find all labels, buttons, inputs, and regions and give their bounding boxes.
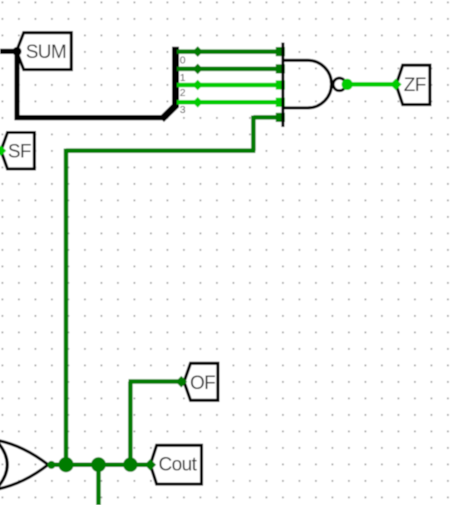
tunnel Cout — [150, 445, 201, 484]
junction dot at x=98.5 — [91, 457, 106, 472]
bus wire SUM 4-bit (thick black) — [0, 51, 164, 117]
tunnel OF — [184, 363, 218, 400]
wire horizontal to OF tunnel (low) — [129, 379, 182, 384]
end square wire bit0 at gate input — [276, 47, 285, 56]
node diamond on wire bit1 — [192, 64, 203, 75]
nand gate output bubble — [333, 78, 346, 91]
junction dot at x=130.4 — [123, 457, 137, 471]
wire nand output to ZF (high) — [347, 82, 396, 87]
nand gate U1 body — [283, 60, 332, 108]
wire bit3 (high, bright green) — [177, 100, 281, 105]
wire vertical to 5th input — [251, 116, 256, 151]
end square 5th input at gate input — [276, 113, 285, 122]
svg-text:0: 0 — [180, 55, 186, 67]
wire long vertical x=66 — [64, 149, 69, 465]
svg-text:1: 1 — [180, 72, 186, 84]
svg-text:SUM: SUM — [26, 42, 66, 63]
output node dot (high) — [342, 79, 353, 90]
or gate output node dot (low) — [47, 461, 55, 469]
wire vertical down from x=98.5 — [96, 465, 101, 505]
wire vertical up to OF (low) — [128, 382, 133, 465]
tunnel SUM — [17, 33, 72, 70]
splitter spine — [162, 47, 176, 120]
wire or-output to Cout (low) — [51, 463, 150, 468]
end square wire bit2 at gate input — [276, 80, 285, 89]
end diamond at OF tunnel — [176, 376, 188, 388]
end square wire bit3 at gate input — [276, 98, 285, 107]
or gate (bottom left, partially visible) — [0, 439, 48, 491]
tunnel SF — [1, 133, 35, 169]
svg-text:SF: SF — [8, 141, 31, 162]
junction dot at x=66 — [58, 457, 73, 472]
junction dot on bus at SUM tunnel point — [13, 47, 22, 56]
wire bit1 (low, dark green) — [177, 67, 281, 72]
node diamond on wire bit3 — [192, 97, 203, 108]
wire 5th input (low, dark green) horizontal into gate — [253, 115, 281, 120]
svg-text:OF: OF — [190, 373, 215, 394]
end diamond at ZF tunnel — [390, 79, 402, 91]
tunnel ZF — [396, 65, 430, 104]
svg-text:ZF: ZF — [404, 75, 426, 96]
wire bit0 (low, dark green) — [177, 49, 281, 54]
wire bit2 (high, bright green) — [177, 83, 281, 88]
node diamond on wire bit2 — [192, 80, 203, 91]
svg-text:3: 3 — [180, 104, 186, 116]
end diamond at Cout tunnel — [145, 459, 157, 471]
node diamond on wire bit0 — [192, 46, 203, 57]
nand gate input line — [281, 43, 284, 128]
svg-text:Cout: Cout — [159, 455, 198, 476]
svg-text:2: 2 — [180, 87, 186, 99]
wire horizontal SF-row y=150 — [66, 148, 255, 153]
end square wire bit1 at gate input — [276, 64, 285, 73]
node diamond at SF tunnel point (high) — [0, 145, 6, 156]
